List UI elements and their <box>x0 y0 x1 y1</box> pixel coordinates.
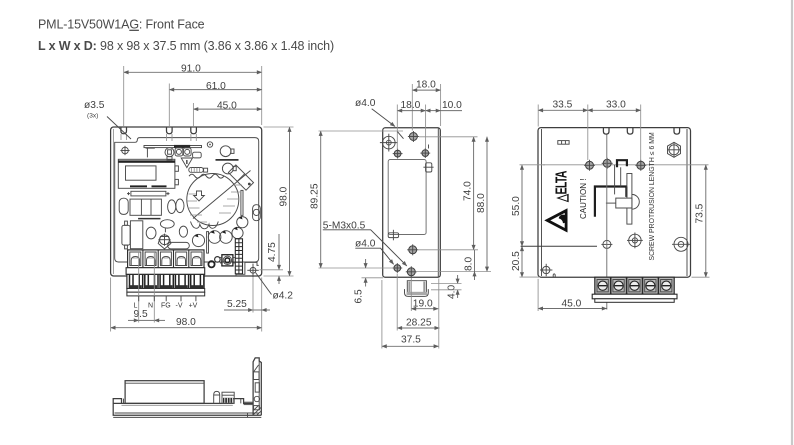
pcb hole top-left <box>122 147 129 154</box>
svg-text:△ELTA: △ELTA <box>553 170 570 203</box>
svg-text:98.0: 98.0 <box>176 317 196 328</box>
clip on right edge <box>253 205 261 221</box>
left wall inner line <box>541 129 543 276</box>
vertical bar <box>241 190 243 215</box>
svg-text:(3x): (3x) <box>87 113 98 120</box>
svg-text:45.0: 45.0 <box>217 100 237 111</box>
DELTA logo text <box>553 170 570 203</box>
wall-tray joint <box>244 401 254 403</box>
dim 61.0 <box>169 89 261 91</box>
cover box <box>125 381 204 404</box>
dim 4.75 <box>278 234 280 270</box>
rounded bar <box>168 242 190 248</box>
svg-text:ø4.2: ø4.2 <box>273 291 294 302</box>
svg-text:5.25: 5.25 <box>227 299 247 310</box>
dim 18.0 / 10.0 <box>397 110 425 112</box>
case outline V1 <box>111 127 262 276</box>
rear hole 1 <box>586 161 594 169</box>
pcb hole top-right <box>207 142 212 147</box>
svg-text:18.0: 18.0 <box>416 79 436 90</box>
svg-text:4.0: 4.0 <box>447 285 458 299</box>
terminal block mid band <box>126 268 205 275</box>
oval cap B <box>146 227 156 239</box>
rings <box>208 261 214 267</box>
dim 19.0 <box>411 308 438 310</box>
dim 18.0 top <box>412 89 440 91</box>
twin ovals <box>168 200 176 214</box>
label dia 4.2 leader <box>256 273 272 295</box>
terminal block upper row <box>128 250 204 268</box>
bottom edge notch <box>553 274 555 277</box>
svg-text:37.5: 37.5 <box>401 335 421 346</box>
svg-text:55.0: 55.0 <box>511 196 522 216</box>
svg-text:98.0: 98.0 <box>279 186 290 206</box>
terminal label stems <box>139 296 196 301</box>
svg-text:ø4.0: ø4.0 <box>355 238 376 249</box>
tray profile <box>113 399 261 416</box>
capacitor side <box>214 391 220 403</box>
dim 45.0 rear <box>538 308 607 310</box>
diode pack rotated <box>228 165 253 190</box>
output cap row <box>192 234 204 246</box>
svg-text:N: N <box>148 303 153 310</box>
horizontal oval <box>160 220 174 228</box>
cap D2 <box>222 163 233 174</box>
svg-text:-V: -V <box>176 303 183 310</box>
cap bank <box>130 199 161 215</box>
svg-text:20.5: 20.5 <box>511 251 522 271</box>
dim 91.0 <box>124 71 262 73</box>
dim 55.0 / 20.5 <box>521 165 523 246</box>
FG screw + shield <box>158 237 171 249</box>
resistor ladder <box>235 239 242 274</box>
rear panel wall <box>253 358 261 415</box>
dim 89.25 <box>320 131 322 268</box>
bottom-right corner pocket <box>236 262 259 276</box>
hole M3 pair right <box>422 150 429 157</box>
dim 73.5 <box>705 165 707 277</box>
slot stems into case <box>120 134 122 140</box>
DIN clip hook <box>617 160 627 167</box>
case outline V2 <box>383 128 441 277</box>
svg-text:89.25: 89.25 <box>310 183 321 209</box>
svg-text:8.0: 8.0 <box>464 257 475 271</box>
DIN clip stems <box>614 165 616 195</box>
screw slot 3 <box>191 127 197 134</box>
dim 33.5 / 33.0 <box>538 109 588 111</box>
small box <box>193 152 202 158</box>
svg-text:33.0: 33.0 <box>606 100 626 111</box>
vent pair <box>558 141 569 145</box>
svg-text:L x W x D: 98 x 98 x 37.5 mm (: L x W x D: 98 x 98 x 37.5 mm (3.86 x 3.8… <box>38 39 334 53</box>
svg-text:73.5: 73.5 <box>695 203 706 223</box>
dim 98.0 right <box>289 127 291 276</box>
rear hole 2 <box>603 159 611 167</box>
dim 98.0 bottom <box>111 327 262 329</box>
DIN clip body <box>616 198 632 208</box>
big capacitor <box>187 174 239 226</box>
svg-text:45.0: 45.0 <box>562 299 582 310</box>
rear terminal strip <box>592 277 677 302</box>
DIN clip lever <box>595 187 627 217</box>
corner hatch <box>253 406 261 415</box>
DELTA logo mark <box>547 211 567 231</box>
svg-text:+V: +V <box>189 303 198 310</box>
svg-text:61.0: 61.0 <box>206 81 226 92</box>
right wall inner line <box>437 129 439 278</box>
hex screw top <box>668 142 681 157</box>
svg-text:18.0: 18.0 <box>401 100 421 111</box>
hole M3 pair left <box>394 150 401 157</box>
hole M3 top <box>409 133 417 141</box>
dim 74.0 <box>473 137 475 250</box>
tray ticks <box>123 399 125 404</box>
svg-text:CAUTION !: CAUTION ! <box>579 179 588 219</box>
arrow-down mark <box>194 191 205 201</box>
DIN clip roller <box>632 194 639 209</box>
oval cap A <box>119 198 128 214</box>
svg-text:FG: FG <box>161 303 171 310</box>
chassis cutout <box>388 160 426 235</box>
trimmer pot <box>222 255 233 266</box>
corner hole bottom-left <box>543 266 550 273</box>
clip screw <box>629 234 641 246</box>
dim 9.5 <box>139 319 155 321</box>
svg-text:19.0: 19.0 <box>413 299 433 310</box>
hole dia4 big <box>383 136 396 149</box>
page right border <box>791 0 793 445</box>
terminal block lower row <box>127 274 204 288</box>
svg-text:PML-15V50W1AG: Front Face: PML-15V50W1AG: Front Face <box>38 18 205 32</box>
case outline V3 <box>538 128 691 278</box>
centre line <box>606 135 608 310</box>
case left wall line <box>112 129 114 274</box>
hole dia4 bottom-left <box>394 265 401 272</box>
dim 45.0 <box>193 108 261 110</box>
hex screw bottom <box>674 237 688 251</box>
rear slot 3 <box>674 128 680 135</box>
rear slot 1 <box>603 128 609 135</box>
hole M3 mid-low <box>409 246 417 254</box>
svg-text:ø3.5: ø3.5 <box>84 100 105 111</box>
DIN clip slider <box>627 174 632 225</box>
screw slot 2 <box>167 127 173 134</box>
tray inner bottom <box>115 412 260 414</box>
tray inner top line <box>122 404 233 406</box>
svg-text:91.0: 91.0 <box>181 64 201 75</box>
svg-text:33.5: 33.5 <box>553 100 573 111</box>
rear slot 2 <box>627 128 633 135</box>
dim 37.5 <box>382 345 439 347</box>
mounting hole bottom-right <box>250 267 256 273</box>
axial cap left <box>122 225 130 245</box>
right wall inner line <box>686 129 688 276</box>
cutout clip right <box>426 163 432 172</box>
transformer <box>118 159 175 188</box>
svg-text:4.75: 4.75 <box>267 242 278 262</box>
oval cap C <box>179 226 187 237</box>
terminal block lip <box>127 289 205 293</box>
svg-text:6.5: 6.5 <box>354 289 365 303</box>
dim 4.0 <box>457 275 459 284</box>
warning triangle <box>181 158 192 168</box>
screw head <box>165 148 174 157</box>
dim 88.0 <box>486 137 488 272</box>
svg-text:10.0: 10.0 <box>442 100 462 111</box>
svg-text:28.25: 28.25 <box>406 318 432 329</box>
rear hole 3 <box>637 161 645 169</box>
PCB outline <box>115 138 259 262</box>
svg-text:9.5: 9.5 <box>134 309 148 320</box>
mid hole on centre line <box>603 240 611 248</box>
L trace <box>146 148 155 157</box>
wall clip details <box>253 365 259 380</box>
dim 8.0 <box>474 250 476 272</box>
svg-text:ø4.0: ø4.0 <box>355 98 376 109</box>
svg-text:74.0: 74.0 <box>463 181 474 201</box>
cap bottom crimps <box>191 222 219 229</box>
cap D1 <box>220 146 231 157</box>
cutout clip bottom-left <box>388 233 398 238</box>
bar resistor <box>131 191 166 196</box>
box <box>130 221 142 249</box>
relay squares <box>175 148 183 156</box>
dim 6.5 <box>365 259 367 268</box>
hole row line <box>543 164 709 166</box>
bus bar <box>144 146 202 148</box>
svg-text:88.0: 88.0 <box>476 193 487 213</box>
svg-text:L: L <box>134 303 138 310</box>
screw slot 1 <box>121 127 127 134</box>
svg-text:SCREW PROTRUSION LENGTH ≤ 6 MM: SCREW PROTRUSION LENGTH ≤ 6 MM <box>649 132 656 260</box>
dim 28.25 <box>397 327 439 329</box>
terminal side block <box>222 392 234 403</box>
dim 5.25 <box>224 309 253 311</box>
hole M3 bottom <box>407 268 415 276</box>
inductor <box>189 168 204 173</box>
output connector <box>407 281 426 294</box>
bar <box>216 159 239 161</box>
